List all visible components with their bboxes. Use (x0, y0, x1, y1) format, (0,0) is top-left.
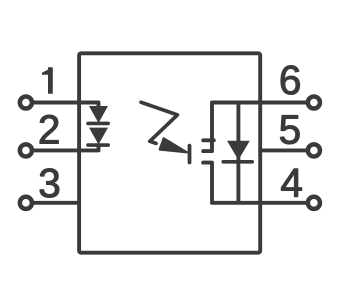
svg-text:4: 4 (280, 160, 303, 206)
svg-text:6: 6 (279, 57, 302, 103)
svg-text:3: 3 (38, 160, 61, 206)
svg-text:2: 2 (38, 106, 61, 152)
svg-text:5: 5 (279, 107, 302, 153)
